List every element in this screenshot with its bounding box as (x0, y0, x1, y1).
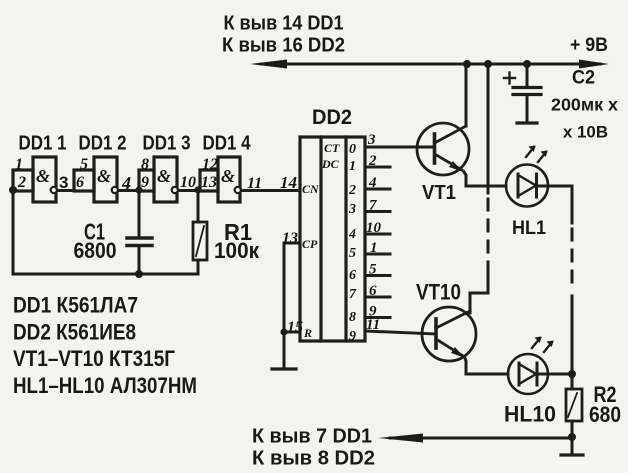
svg-text:100к: 100к (214, 238, 260, 263)
svg-text:&: & (97, 166, 111, 186)
svg-text:10: 10 (366, 220, 382, 236)
svg-text:VT10: VT10 (416, 280, 461, 305)
svg-text:DD2: DD2 (312, 105, 352, 129)
svg-text:5: 5 (349, 246, 356, 261)
svg-text:VT1: VT1 (422, 181, 456, 204)
svg-text:&: & (36, 166, 50, 186)
svg-text:К выв 8 DD2: К выв 8 DD2 (252, 448, 375, 470)
svg-text:DD2 К561ИЕ8: DD2 К561ИЕ8 (13, 320, 136, 345)
svg-text:11: 11 (366, 317, 380, 333)
svg-text:8: 8 (349, 310, 356, 325)
svg-text:14: 14 (280, 173, 297, 192)
svg-text:&: & (157, 166, 171, 186)
svg-text:11: 11 (247, 175, 262, 192)
svg-text:CP: CP (302, 237, 318, 251)
svg-text:5: 5 (80, 156, 88, 173)
svg-text:CT: CT (324, 141, 340, 155)
svg-text:680: 680 (589, 402, 621, 427)
svg-text:7: 7 (369, 198, 377, 214)
svg-text:9: 9 (349, 329, 356, 344)
svg-text:HL10: HL10 (504, 402, 556, 427)
svg-text:2: 2 (348, 183, 356, 198)
svg-text:DD1 1: DD1 1 (19, 132, 67, 155)
svg-text:+ 9В: + 9В (570, 35, 608, 56)
svg-text:12: 12 (202, 156, 218, 173)
svg-text:6800: 6800 (74, 238, 117, 263)
svg-text:5: 5 (369, 262, 377, 278)
svg-text:HL1–HL10 АЛ307НМ: HL1–HL10 АЛ307НМ (13, 373, 197, 398)
svg-text:6: 6 (349, 268, 356, 283)
svg-text:С2: С2 (572, 68, 595, 89)
svg-text:3: 3 (59, 173, 68, 192)
svg-text:200мк х: 200мк х (551, 95, 618, 115)
svg-text:4: 4 (121, 173, 131, 193)
svg-text:4: 4 (368, 175, 377, 191)
svg-text:1: 1 (349, 159, 356, 174)
svg-text:2: 2 (17, 174, 26, 191)
svg-text:К выв 14 DD1: К выв 14 DD1 (224, 13, 344, 35)
svg-text:3: 3 (348, 202, 356, 217)
svg-text:6: 6 (76, 174, 84, 191)
svg-text:2: 2 (368, 153, 377, 169)
svg-text:1: 1 (15, 156, 23, 173)
svg-text:&: & (221, 166, 235, 186)
svg-text:DD1 2: DD1 2 (79, 132, 127, 155)
svg-text:DD1 К561ЛА7: DD1 К561ЛА7 (13, 293, 138, 318)
svg-text:HL1: HL1 (512, 218, 546, 239)
svg-text:13: 13 (201, 174, 217, 191)
svg-text:R: R (303, 326, 312, 340)
svg-text:4: 4 (348, 227, 356, 242)
svg-text:10: 10 (180, 174, 196, 191)
svg-text:CN: CN (302, 182, 320, 196)
svg-text:6: 6 (369, 283, 377, 299)
svg-text:0: 0 (349, 142, 356, 157)
svg-text:DD1 4: DD1 4 (203, 132, 251, 155)
svg-text:3: 3 (367, 132, 376, 148)
svg-text:13: 13 (282, 230, 298, 247)
svg-text:1: 1 (370, 240, 378, 256)
svg-text:7: 7 (349, 287, 357, 302)
svg-text:VT1–VT10 КТ315Г: VT1–VT10 КТ315Г (13, 346, 175, 371)
svg-text:DD1 3: DD1 3 (143, 132, 191, 155)
svg-text:8: 8 (141, 156, 149, 173)
svg-text:К выв 16 DD2: К выв 16 DD2 (222, 35, 345, 57)
svg-text:DC: DC (321, 157, 340, 171)
svg-text:К выв 7 DD1: К выв 7 DD1 (252, 426, 372, 448)
svg-text:9: 9 (141, 174, 149, 191)
svg-text:15: 15 (287, 319, 303, 336)
svg-text:х 10В: х 10В (563, 123, 608, 142)
